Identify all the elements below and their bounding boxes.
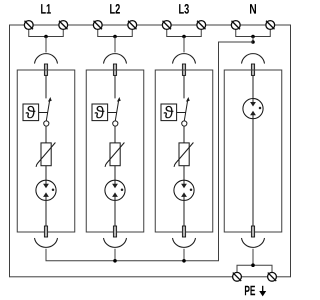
wire L3 pin to disconnector — [183, 75, 185, 98]
switch L2 (disconnect blade with arrow) — [113, 97, 121, 126]
wire N spark gap to pin — [252, 119, 254, 226]
terminal N.2 — [266, 21, 275, 30]
spark gap L3 (gas discharge tube / spark gap) — [174, 180, 194, 200]
terminal L3.2 — [197, 21, 206, 30]
pin L3 bottom blade — [182, 226, 185, 237]
wire L1 terminal drops and bar — [29, 29, 64, 36]
wire L3 junction to socket — [183, 37, 185, 53]
spark gap L2 (gas discharge tube / spark gap) — [105, 180, 125, 200]
terminal PE.2 — [268, 272, 277, 281]
wire N socket to PE bar — [252, 249, 254, 265]
wire L2 spark gap to pin — [114, 200, 116, 226]
wire L1 disconnector link — [39, 112, 48, 114]
terminal L1.2 — [59, 21, 68, 30]
module box L3 — [155, 70, 213, 232]
terminal L2.1 — [93, 21, 102, 30]
arrow PE down (earth direction) — [259, 286, 266, 297]
wire L3 spark gap to pin — [183, 200, 185, 226]
thermal disconnector L3 — [161, 104, 177, 121]
socket L3 top (plug-in socket arc) — [173, 54, 196, 64]
pin L1 bottom blade — [44, 226, 47, 237]
wire L2 pin to disconnector — [114, 75, 116, 98]
wire L3 switch to varistor — [183, 126, 185, 143]
switch L3 (disconnect blade with arrow) — [182, 97, 190, 126]
node N junction — [251, 35, 255, 39]
terminal L3.1 — [162, 21, 171, 30]
terminal PE.1 — [233, 272, 242, 281]
socket N bottom (plug-in socket arc) — [242, 238, 265, 247]
label N — [250, 4, 256, 13]
socket L2 bottom (plug-in socket arc) — [104, 238, 127, 247]
varistor L1 — [36, 143, 55, 167]
socket N top (plug-in socket arc) — [242, 54, 265, 64]
pin N bottom blade — [251, 226, 254, 237]
node L2 junction — [113, 35, 117, 39]
wire L3 to bus — [183, 249, 185, 261]
node L1 junction — [44, 35, 48, 39]
label L1 — [41, 4, 51, 13]
node N rail junction — [251, 40, 255, 44]
wire L1 pin to disconnector — [45, 75, 47, 98]
wire N-bus rail (bottom bus of L modules up to N) — [46, 42, 253, 261]
label L2 — [110, 4, 120, 14]
terminal L1.1 — [24, 21, 33, 30]
wire L2 to bus — [114, 249, 116, 261]
wire L1 spark gap to pin — [45, 200, 47, 226]
wire L1 varistor to spark gap — [45, 166, 47, 181]
socket L3 bottom (plug-in socket arc) — [173, 238, 196, 247]
node L3 bus junction — [182, 259, 186, 263]
spark gap L1 (gas discharge tube / spark gap) — [36, 180, 56, 200]
module box L2 — [86, 70, 144, 232]
thermal disconnector L1 — [23, 104, 39, 121]
wire L3 varistor to spark gap — [183, 166, 185, 181]
wire N junction to socket — [252, 37, 254, 43]
enclosure outline (device case) — [10, 25, 291, 277]
label PE — [245, 286, 255, 295]
pin L3 top blade — [182, 64, 185, 75]
thermal disconnector L2 — [92, 104, 108, 121]
module box L1 — [17, 70, 75, 232]
wire L1 junction to socket — [45, 37, 47, 53]
module box N — [224, 70, 282, 232]
wire L2 switch to varistor — [114, 126, 116, 143]
pin L2 top blade — [113, 64, 116, 75]
wire L1 switch to varistor — [45, 126, 47, 143]
wire L2 junction to socket — [114, 37, 116, 53]
wire N pin to spark gap — [252, 75, 254, 98]
varistor L2 — [105, 143, 124, 167]
wire PE bar with drops to PE terminals — [237, 265, 272, 272]
node PE junction — [251, 263, 255, 267]
switch L1 (disconnect blade with arrow) — [44, 97, 52, 126]
pin L2 bottom blade — [113, 226, 116, 237]
wire N terminal drops and bar — [236, 29, 271, 36]
wire L2 disconnector link — [108, 112, 117, 114]
spark gap N (N-PE) (gas discharge tube / spark gap) — [243, 99, 263, 119]
varistor L3 — [174, 143, 193, 167]
socket L1 top (plug-in socket arc) — [35, 54, 58, 64]
terminal L2.2 — [128, 21, 137, 30]
node L3 junction — [182, 35, 186, 39]
wire L3 terminal drops and bar — [167, 29, 202, 36]
pin L1 top blade — [44, 64, 47, 75]
wire L3 disconnector link — [177, 112, 186, 114]
socket L1 bottom (plug-in socket arc) — [35, 238, 58, 247]
socket L2 top (plug-in socket arc) — [104, 54, 127, 64]
terminal N.1 — [231, 21, 240, 30]
wire L2 varistor to spark gap — [114, 166, 116, 181]
pin N top blade — [251, 64, 254, 75]
node L2 bus junction — [113, 259, 117, 263]
wire L2 terminal drops and bar — [98, 29, 133, 36]
label L3 — [179, 4, 189, 14]
